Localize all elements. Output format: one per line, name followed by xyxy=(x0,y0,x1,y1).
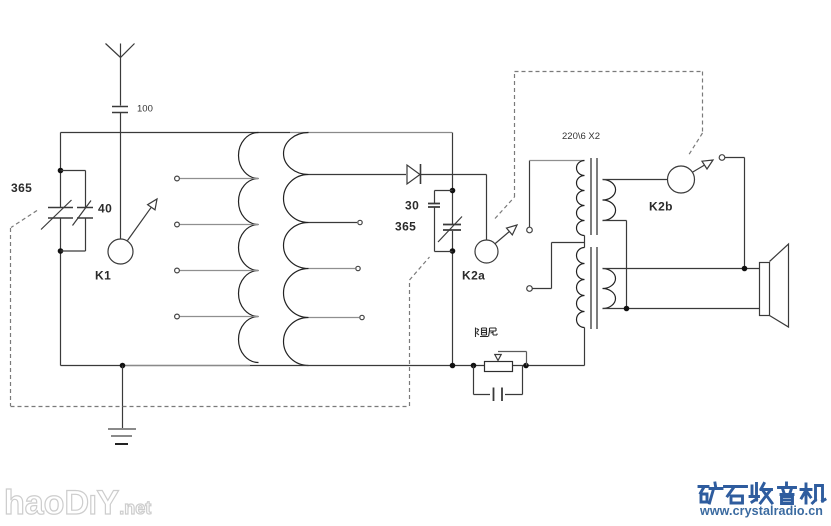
wire L2 tap 3 xyxy=(309,268,356,270)
watermark haoDIY.net xyxy=(4,484,151,523)
wire L1 tap 4 xyxy=(180,316,258,318)
svg-text:K2a: K2a xyxy=(462,269,485,283)
wire contact1 to transformer xyxy=(529,161,531,228)
inductor L2 xyxy=(284,133,309,366)
wire secondary top lead to K2b xyxy=(603,179,668,181)
wire L2 tap 4 xyxy=(309,317,360,319)
wire detector vertical xyxy=(452,133,454,366)
diode D1 xyxy=(407,164,487,184)
glyph shi xyxy=(725,487,747,504)
capacitor C2 365 variable xyxy=(41,200,73,230)
terminal K2a contact 2 xyxy=(527,286,533,292)
svg-text:40: 40 xyxy=(98,202,112,216)
transformer T1 secondary bottom winding xyxy=(603,269,616,309)
wire top bus xyxy=(61,132,291,134)
wire L2 tap to diode xyxy=(309,174,407,176)
glyph kuang xyxy=(699,483,722,503)
wire L1 tap 1 xyxy=(180,178,258,180)
svg-text:K2b: K2b xyxy=(649,200,673,214)
switch K2a xyxy=(475,175,517,264)
wire left vertical xyxy=(60,133,62,366)
wire secondary bottom bottom lead to speaker xyxy=(603,308,760,310)
terminal K2a contact 1 xyxy=(527,227,533,233)
glyph ji xyxy=(801,484,825,503)
label 阻尼 xyxy=(476,328,498,338)
node damper right xyxy=(523,363,529,369)
capacitor C6 damper xyxy=(474,366,523,402)
svg-text:365: 365 xyxy=(395,220,416,234)
switch K2b xyxy=(668,160,714,193)
svg-text:220\6 X2: 220\6 X2 xyxy=(562,131,600,142)
glyph yin xyxy=(779,483,796,504)
svg-text:100: 100 xyxy=(137,104,153,115)
terminal tap1 xyxy=(175,176,180,181)
capacitor C5 365 variable xyxy=(438,217,462,243)
watermark crystalradio xyxy=(691,478,831,526)
capacitor C3 40 trimmer xyxy=(61,171,94,252)
node damper left xyxy=(471,363,477,369)
terminal L2 tap2 xyxy=(358,220,362,224)
wire L1 tap 2 xyxy=(180,224,258,226)
resistor R1 damper rheostat xyxy=(485,362,513,372)
terminal L2 tap4 xyxy=(360,315,364,319)
inductor L1 xyxy=(239,133,259,363)
transformer T1 core xyxy=(591,158,597,329)
node left cap bottom xyxy=(58,248,64,254)
capacitor C4 30 xyxy=(428,191,453,252)
wire primary bottom lead xyxy=(584,328,586,366)
node left cap top xyxy=(58,168,64,174)
wire secondary bottom top lead to speaker xyxy=(603,268,760,270)
wire ground lead xyxy=(122,366,124,429)
glyph shou xyxy=(750,484,772,504)
node tank bottom xyxy=(450,363,456,369)
wire bottom bus xyxy=(61,365,585,367)
node secondary join xyxy=(624,306,630,312)
wire K2b contact to speaker top xyxy=(725,158,745,269)
terminal tap2 xyxy=(175,222,180,227)
terminal tap4 xyxy=(175,314,180,319)
node detector bottom xyxy=(450,248,456,254)
wire secondary top bottom lead xyxy=(603,221,627,309)
transformer T1 secondary top winding xyxy=(603,180,616,221)
terminal tap3 xyxy=(175,268,180,273)
node ground junction xyxy=(120,363,126,369)
dashed gang line tuning xyxy=(11,211,430,407)
node detector top xyxy=(450,188,456,194)
transformer T1 primary bottom winding xyxy=(577,248,585,328)
terminal K2b contact xyxy=(719,155,725,161)
antenna xyxy=(106,44,135,106)
capacitor C1 100 xyxy=(112,107,128,240)
wire L1 tap 3 xyxy=(180,270,258,272)
switch K1 xyxy=(108,199,157,264)
node speaker top xyxy=(742,266,748,272)
wire rheostat wiper xyxy=(495,352,527,366)
wire L2 tap 2 xyxy=(309,222,358,224)
wire contact2 to transformer xyxy=(532,243,585,289)
terminal L2 tap3 xyxy=(356,266,360,270)
ground xyxy=(108,429,136,444)
svg-text:365: 365 xyxy=(11,181,32,195)
svg-text:K1: K1 xyxy=(95,269,111,283)
transformer T1 primary top winding xyxy=(577,161,585,236)
svg-text:30: 30 xyxy=(405,199,419,213)
dashed gang line switch xyxy=(495,72,703,219)
wire winding link xyxy=(584,236,586,248)
speaker LS1 xyxy=(760,244,789,327)
